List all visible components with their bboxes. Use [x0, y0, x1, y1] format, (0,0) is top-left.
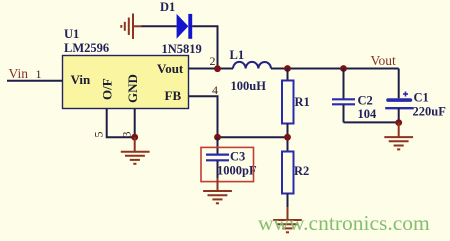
wire FB node down to C3: [217, 137, 219, 154]
capacitor C1 (polarized): [385, 98, 413, 108]
wire D1 cathode to switch node: [192, 26, 217, 68]
node junction at R1 top: [284, 65, 291, 72]
svg-text:www.cntronics.com: www.cntronics.com: [258, 211, 430, 235]
op-amp U1 LM2596 regulator body: [63, 56, 189, 109]
wire C3 bottom to ground: [217, 161, 219, 191]
wire C1 bottom to lower rail: [398, 108, 400, 122]
inductor L1: [233, 62, 271, 69]
svg-text:U1: U1: [64, 27, 79, 41]
wire U1 pin 5 to ground: [107, 109, 135, 138]
resistor R1: [282, 81, 294, 124]
svg-text:1N5819: 1N5819: [162, 42, 202, 56]
wire C2 bottom to lower rail: [343, 105, 345, 123]
wire R2 bottom to ground: [287, 194, 289, 220]
node junction R1/R2/FB: [284, 134, 291, 141]
wire C2 top stem: [343, 69, 345, 99]
wire U1 FB pin 4 to divider: [189, 96, 288, 137]
svg-text:GND: GND: [125, 74, 140, 103]
wire ground to D1 anode: [142, 25, 177, 27]
svg-text:R1: R1: [295, 95, 310, 109]
capacitor C3: [206, 155, 229, 161]
wire Vout rail down to C1: [398, 69, 400, 99]
wire node to R1: [287, 69, 289, 81]
ground (rotated, at D1 anode): [121, 14, 141, 40]
node switch junction at pin 2: [214, 65, 221, 72]
svg-text:O/F: O/F: [100, 78, 115, 100]
node junction at U1 ground: [131, 134, 138, 141]
wire L1 to Vout rail: [271, 68, 399, 70]
svg-text:C3: C3: [230, 150, 245, 164]
diode D1 (1N5819): [177, 14, 193, 39]
svg-text:1: 1: [36, 67, 42, 81]
wire Vin input to U1 pin 1: [7, 80, 63, 82]
svg-text:L1: L1: [230, 48, 245, 62]
svg-text:Vout: Vout: [371, 53, 397, 68]
svg-text:4: 4: [212, 83, 218, 97]
resistor R2: [282, 152, 294, 194]
svg-text:Vin: Vin: [71, 72, 92, 87]
ground (below C1): [384, 123, 413, 150]
node junction at C2 top: [340, 65, 347, 72]
svg-text:104: 104: [358, 107, 378, 121]
svg-text:Vin: Vin: [9, 66, 29, 81]
svg-text:R2: R2: [294, 164, 309, 178]
svg-text:5: 5: [92, 132, 106, 138]
highlight box around C3: [201, 147, 254, 181]
ground (below R2): [273, 207, 302, 232]
capacitor C1 polarity plus sign: [403, 92, 408, 97]
capacitor C2: [332, 99, 355, 104]
wire U1 pin 3 to ground: [134, 109, 136, 138]
svg-text:LM2596: LM2596: [64, 41, 109, 55]
svg-text:D1: D1: [160, 0, 175, 14]
wire R1 bottom to FB node: [287, 124, 289, 152]
node junction FB / C3: [214, 134, 221, 141]
svg-text:100uH: 100uH: [231, 79, 267, 93]
svg-text:C2: C2: [358, 94, 373, 108]
wire U1 Vout pin 2 to node: [189, 68, 234, 70]
ground (below C3): [203, 178, 232, 203]
svg-text:FB: FB: [165, 88, 182, 103]
svg-text:2: 2: [210, 54, 216, 68]
svg-text:220uF: 220uF: [413, 105, 447, 119]
svg-text:Vout: Vout: [157, 61, 184, 76]
ground (below U1 pins 3,5): [121, 137, 150, 164]
svg-text:1000pF: 1000pF: [217, 164, 257, 178]
node junction C1 ground: [395, 119, 402, 126]
svg-text:C1: C1: [414, 91, 429, 105]
wire lower rail C2 to C1: [344, 121, 399, 123]
